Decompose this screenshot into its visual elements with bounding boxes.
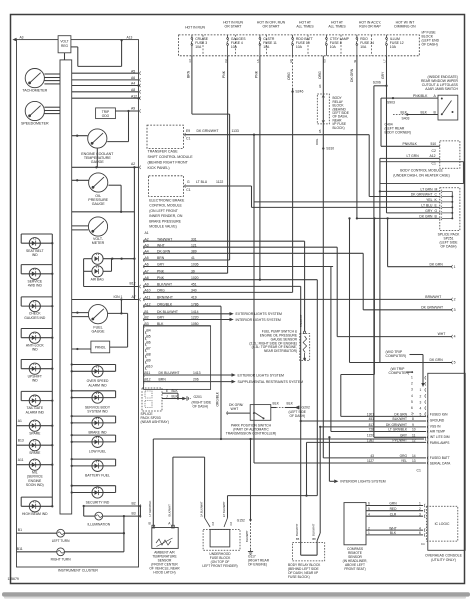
svg-text:C1: C1 [417, 469, 421, 473]
svg-text:5: 5 [420, 412, 422, 416]
svg-text:2: 2 [454, 298, 456, 302]
svg-text:10A: 10A [231, 45, 238, 49]
svg-text:AIR BAG: AIR BAG [91, 278, 105, 282]
svg-text:(ON LEFT FRONT: (ON LEFT FRONT [149, 209, 179, 213]
svg-text:EXTERIOR LIGHTS SYSTEM: EXTERIOR LIGHTS SYSTEM [236, 312, 283, 316]
svg-text:PNK/BLK: PNK/BLK [413, 94, 428, 98]
svg-text:B: B [149, 522, 151, 526]
svg-text:A12: A12 [430, 154, 436, 158]
svg-text:A4: A4 [318, 84, 322, 88]
svg-text:43: 43 [370, 454, 374, 458]
svg-text:KICK PANEL): KICK PANEL) [148, 166, 170, 170]
svg-text:DK GRN: DK GRN [430, 262, 444, 266]
svg-text:DK GRN/WHT: DK GRN/WHT [411, 193, 433, 197]
svg-text:11: 11 [412, 434, 416, 438]
svg-text:S206: S206 [373, 81, 381, 85]
svg-text:BRAKE IND: BRAKE IND [88, 431, 107, 435]
svg-text:1301: 1301 [367, 413, 374, 417]
svg-text:DIMMING ON: DIMMING ON [394, 25, 416, 29]
svg-text:3: 3 [454, 308, 456, 312]
svg-text:ELECTRONIC BRAKE: ELECTRONIC BRAKE [149, 199, 185, 203]
svg-text:B3: B3 [132, 512, 136, 516]
svg-text:VOLT: VOLT [60, 39, 68, 43]
svg-text:14: 14 [412, 454, 416, 458]
svg-text:4: 4 [420, 406, 422, 410]
svg-text:OF DASH): OF DASH) [422, 43, 438, 47]
svg-text:2: 2 [420, 394, 422, 398]
svg-text:LT GRN/BLK: LT GRN/BLK [148, 500, 152, 516]
svg-text:1127: 1127 [367, 459, 374, 463]
svg-text:BLOCK): BLOCK) [333, 126, 345, 130]
svg-text:E7 BLK/WHT: E7 BLK/WHT [222, 501, 226, 517]
svg-text:COMPUTER): COMPUTER) [389, 371, 410, 375]
svg-text:INSTRUMENT CLUSTER: INSTRUMENT CLUSTER [58, 568, 98, 572]
svg-text:OF ENGINE): OF ENGINE) [248, 563, 267, 567]
svg-text:PNK: PNK [222, 70, 226, 78]
svg-text:6: 6 [419, 531, 421, 535]
svg-text:VSS IN: VSS IN [430, 424, 441, 428]
svg-text:817: 817 [369, 423, 375, 427]
svg-text:GAUGE: GAUGE [92, 202, 106, 206]
svg-text:DK GRN: DK GRN [419, 215, 433, 219]
svg-text:PARKLAMPS: PARKLAMPS [430, 441, 450, 445]
svg-text:DK GRN: DK GRN [350, 68, 354, 82]
svg-text:(UTILITY ONLY): (UTILITY ONLY) [431, 558, 456, 562]
svg-text:4: 4 [411, 394, 413, 398]
svg-text:BLK: BLK [273, 401, 280, 405]
svg-text:1220: 1220 [367, 434, 374, 438]
svg-text:3: 3 [420, 400, 422, 404]
svg-text:GRY: GRY [381, 71, 385, 79]
svg-text:5: 5 [454, 361, 456, 365]
svg-text:HOT IN RUN: HOT IN RUN [185, 25, 205, 29]
svg-text:B6: B6 [147, 341, 151, 345]
svg-text:ORG: ORG [318, 71, 322, 79]
svg-text:AIR TEMP: AIR TEMP [430, 429, 445, 433]
svg-text:SPARE: SPARE [29, 451, 41, 455]
svg-text:COMPUTER): COMPUTER) [386, 354, 407, 358]
svg-text:HIGH BEAM IND: HIGH BEAM IND [22, 512, 48, 516]
svg-text:OF DASH): OF DASH) [193, 405, 209, 409]
svg-text:BATTERY FUEL: BATTERY FUEL [85, 474, 110, 478]
svg-text:YEL: YEL [401, 459, 407, 463]
svg-text:B10: B10 [147, 364, 153, 368]
svg-text:ORG: ORG [315, 139, 319, 145]
svg-text:6: 6 [368, 502, 370, 506]
svg-text:10A: 10A [263, 45, 270, 49]
svg-text:1: 1 [454, 265, 456, 269]
svg-text:GRY: GRY [425, 209, 433, 213]
svg-text:ALARM IND: ALARM IND [26, 411, 45, 415]
svg-text:(NEAR ASHTRAY): (NEAR ASHTRAY) [141, 420, 169, 424]
svg-text:10A: 10A [360, 45, 367, 49]
svg-text:SPARE: SPARE [29, 431, 41, 435]
svg-text:10A: 10A [296, 45, 303, 49]
svg-text:OR START: OR START [263, 25, 280, 29]
svg-text:BLK: BLK [390, 531, 397, 535]
svg-text:FUSED IGN: FUSED IGN [430, 413, 448, 417]
svg-text:B4: B4 [147, 329, 151, 333]
svg-text:BLK/WHT: BLK/WHT [168, 504, 172, 517]
svg-text:CLR: CLR [390, 512, 397, 516]
svg-text:A3: A3 [20, 35, 24, 39]
svg-text:4: 4 [454, 335, 456, 339]
svg-text:INNER FENDER, ON: INNER FENDER, ON [149, 214, 183, 218]
svg-text:B8: B8 [312, 537, 316, 541]
svg-text:B12: B12 [130, 281, 136, 285]
svg-text:PRNDL: PRNDL [95, 345, 106, 349]
svg-text:9: 9 [412, 423, 414, 427]
svg-text:1: 1 [420, 388, 422, 392]
svg-text:IND: IND [32, 379, 38, 383]
svg-text:728: 728 [369, 428, 375, 432]
svg-text:BLK: BLK [287, 401, 294, 405]
svg-text:BODY CONTROL MODULE: BODY CONTROL MODULE [400, 168, 443, 172]
svg-text:GRN: GRN [389, 502, 397, 506]
svg-text:OF DASH): OF DASH) [440, 245, 456, 249]
svg-text:4WD IND: 4WD IND [28, 284, 43, 288]
svg-text:C3: C3 [211, 522, 215, 526]
svg-text:10A: 10A [390, 45, 397, 49]
svg-text:REG: REG [61, 44, 69, 48]
svg-text:S310: S310 [326, 147, 334, 151]
svg-text:SPEEDOMETER: SPEEDOMETER [21, 122, 49, 126]
svg-text:BLK/WHT: BLK/WHT [295, 523, 299, 536]
svg-text:5: 5 [411, 400, 413, 404]
svg-text:(UNDER DASH, ON HEATER CASE): (UNDER DASH, ON HEATER CASE) [393, 174, 450, 178]
svg-text:ORG: ORG [287, 72, 291, 80]
svg-text:DK GRN/WHT: DK GRN/WHT [386, 423, 407, 427]
svg-text:PNK: PNK [255, 70, 259, 78]
svg-text:A4: A4 [131, 82, 135, 86]
svg-text:RIGHT TURN: RIGHT TURN [51, 558, 72, 562]
svg-text:GAUGE: GAUGE [92, 330, 106, 334]
svg-text:C1: C1 [186, 137, 190, 141]
svg-text:LT GRN/BLK: LT GRN/BLK [388, 428, 407, 432]
svg-text:7: 7 [412, 413, 414, 417]
svg-text:METER: METER [92, 241, 105, 245]
svg-text:CONTROL MODULE: CONTROL MODULE [149, 204, 182, 208]
svg-text:BLK: BLK [172, 389, 179, 393]
svg-text:WHT: WHT [389, 526, 396, 530]
svg-text:3: 3 [419, 512, 421, 516]
svg-text:A1: A1 [18, 419, 22, 423]
svg-text:INTERIOR LIGHTS SYSTEM: INTERIOR LIGHTS SYSTEM [340, 480, 385, 484]
svg-text:A5: A5 [318, 129, 322, 133]
svg-text:8: 8 [412, 417, 414, 421]
svg-text:DK GRN/WHT: DK GRN/WHT [421, 305, 443, 309]
svg-text:SYSTEM IND: SYSTEM IND [87, 410, 108, 414]
svg-text:E6: E6 [289, 59, 293, 63]
svg-text:SOON IND): SOON IND) [26, 483, 44, 487]
svg-text:WHT: WHT [231, 407, 239, 411]
svg-text:115679: 115679 [8, 577, 19, 581]
svg-text:ORG: ORG [400, 454, 408, 458]
svg-text:10A: 10A [330, 45, 337, 49]
svg-text:G201: G201 [194, 395, 202, 399]
svg-text:SUPPLEMENTAL RESTRAINTS SYSTEM: SUPPLEMENTAL RESTRAINTS SYSTEM [238, 380, 304, 384]
svg-text:10: 10 [412, 428, 416, 432]
svg-text:2: 2 [419, 507, 421, 511]
svg-text:INTERIOR LIGHTS SYSTEM: INTERIOR LIGHTS SYSTEM [236, 318, 281, 322]
svg-text:3: 3 [411, 388, 413, 392]
svg-text:MODULE VALVE): MODULE VALVE) [149, 225, 177, 229]
svg-text:A1: A1 [145, 231, 149, 235]
svg-text:INT LITE DIM: INT LITE DIM [430, 435, 450, 439]
svg-text:(BEHIND RIGHT FRONT: (BEHIND RIGHT FRONT [148, 160, 189, 164]
svg-text:BRN: BRN [186, 70, 190, 78]
svg-text:B1: B1 [18, 528, 22, 532]
svg-text:ALL TIMES: ALL TIMES [328, 25, 346, 29]
svg-text:GROUND: GROUND [430, 418, 445, 422]
svg-text:BLK/WHT: BLK/WHT [245, 530, 249, 542]
svg-text:S903: S903 [387, 100, 395, 104]
svg-text:C2: C2 [229, 522, 233, 526]
svg-text:BLK: BLK [421, 110, 428, 114]
svg-text:LEFT FRONT FENDER): LEFT FRONT FENDER) [202, 564, 237, 568]
svg-text:FUSE BLOCK): FUSE BLOCK) [288, 575, 310, 579]
svg-text:A8: A8 [131, 88, 135, 92]
svg-text:A11: A11 [18, 458, 24, 462]
svg-text:13: 13 [412, 459, 416, 463]
svg-text:B13: B13 [18, 439, 24, 443]
svg-text:BODY CORNER): BODY CORNER) [385, 131, 411, 135]
svg-text:C2: C2 [432, 149, 436, 153]
svg-text:1: 1 [419, 502, 421, 506]
svg-text:DK GRN: DK GRN [430, 358, 444, 362]
svg-text:B9: B9 [147, 358, 151, 362]
svg-text:A5: A5 [131, 69, 135, 73]
svg-text:B11: B11 [17, 547, 23, 551]
svg-text:C4: C4 [421, 542, 425, 546]
svg-text:E9: E9 [186, 129, 190, 133]
svg-text:ALARM IND: ALARM IND [88, 383, 107, 387]
svg-text:ILLUMINATION: ILLUMINATION [88, 522, 111, 526]
svg-text:WHT: WHT [438, 332, 446, 336]
svg-text:B7: B7 [147, 346, 151, 350]
svg-text:FRONT SEAT): FRONT SEAT) [344, 567, 365, 571]
svg-text:2: 2 [411, 382, 413, 386]
svg-text:IND: IND [32, 253, 38, 257]
svg-text:DK GRN: DK GRN [394, 413, 407, 417]
svg-text:1: 1 [368, 531, 370, 535]
svg-text:EXTERIOR LIGHTS SYSTEM: EXTERIOR LIGHTS SYSTEM [238, 373, 285, 377]
svg-text:4: 4 [419, 526, 421, 530]
svg-text:NEAR DISTRIBUTOR): NEAR DISTRIBUTOR) [264, 349, 297, 353]
svg-text:LT GRN: LT GRN [407, 154, 420, 158]
svg-text:SECURITY IND: SECURITY IND [86, 500, 110, 504]
svg-text:B5: B5 [296, 537, 300, 541]
svg-text:2: 2 [368, 526, 370, 530]
svg-text:A9: A9 [131, 107, 135, 111]
svg-text:451: 451 [369, 417, 375, 421]
svg-text:LOW FUEL: LOW FUEL [89, 450, 106, 454]
svg-text:2A BLK/WHT: 2A BLK/WHT [199, 501, 203, 517]
svg-text:LT BLU: LT BLU [421, 204, 433, 208]
svg-text:SERIAL DATA: SERIAL DATA [430, 461, 451, 465]
svg-text:A6: A6 [131, 76, 135, 80]
svg-text:A7: A7 [132, 295, 136, 299]
svg-text:S246: S246 [295, 90, 303, 94]
svg-text:M: M [435, 188, 438, 192]
svg-text:G: G [187, 180, 190, 184]
svg-text:FUSED BATT: FUSED BATT [430, 456, 450, 460]
svg-text:6: 6 [411, 406, 413, 410]
svg-text:GAUGES IND: GAUGES IND [24, 316, 46, 320]
svg-text:G152: G152 [237, 519, 245, 523]
svg-text:G: G [435, 209, 438, 213]
svg-text:C1: C1 [186, 188, 190, 192]
svg-text:BLK/WHT: BLK/WHT [312, 523, 316, 536]
svg-text:BLK/WHT: BLK/WHT [393, 417, 407, 421]
svg-text:G202: G202 [302, 406, 310, 410]
svg-text:B8: B8 [147, 352, 151, 356]
svg-text:ORG/BLK: ORG/BLK [215, 391, 219, 406]
svg-text:A2: A2 [131, 162, 135, 166]
svg-text:10A: 10A [195, 45, 202, 49]
svg-text:GRY: GRY [400, 434, 408, 438]
svg-text:LT BLU: LT BLU [196, 180, 208, 184]
svg-text:YEL: YEL [426, 198, 432, 202]
svg-text:IND: IND [32, 348, 38, 352]
svg-text:TRANSFER CASE: TRANSFER CASE [148, 150, 179, 154]
svg-text:510: 510 [431, 142, 437, 146]
svg-text:5: 5 [368, 507, 370, 511]
svg-text:B2: B2 [132, 502, 136, 506]
svg-text:4: 4 [368, 512, 370, 516]
svg-text:TAN/WHT: TAN/WHT [299, 314, 303, 327]
svg-text:A13: A13 [127, 35, 133, 39]
svg-text:PNK/BLK: PNK/BLK [403, 142, 418, 146]
svg-text:TACHOMETER: TACHOMETER [22, 89, 47, 93]
svg-text:TRANSMISSION CONTROLLER): TRANSMISSION CONTROLLER) [226, 431, 277, 435]
svg-text:OR START: OR START [225, 25, 242, 29]
svg-text:LT GRN: LT GRN [420, 188, 433, 192]
svg-text:AJAR JAMB SWITCH: AJAR JAMB SWITCH [425, 87, 458, 91]
svg-text:SHIFT CONTROL MODULE: SHIFT CONTROL MODULE [148, 155, 194, 159]
svg-text:RUN OR RAP: RUN OR RAP [359, 25, 381, 29]
svg-text:BRN/WHT: BRN/WHT [425, 295, 441, 299]
svg-text:IC LOGIC: IC LOGIC [435, 522, 450, 526]
svg-text:RED: RED [390, 507, 398, 511]
svg-text:A12: A12 [131, 94, 137, 98]
svg-text:1133: 1133 [232, 129, 239, 133]
svg-text:1122: 1122 [216, 180, 223, 184]
svg-text:S403: S403 [402, 117, 410, 121]
svg-text:B5: B5 [147, 335, 151, 339]
svg-text:LEFT TURN: LEFT TURN [52, 539, 70, 543]
svg-text:BRAKE PRESSURE: BRAKE PRESSURE [149, 219, 181, 223]
svg-text:HOOD LATCH): HOOD LATCH) [153, 570, 175, 574]
svg-text:ALL TIMES: ALL TIMES [296, 25, 314, 29]
svg-text:1: 1 [411, 376, 413, 380]
svg-text:OF DASH): OF DASH) [290, 414, 306, 418]
svg-text:ODO: ODO [102, 114, 110, 118]
svg-text:DK GRN/WHT: DK GRN/WHT [197, 129, 219, 133]
